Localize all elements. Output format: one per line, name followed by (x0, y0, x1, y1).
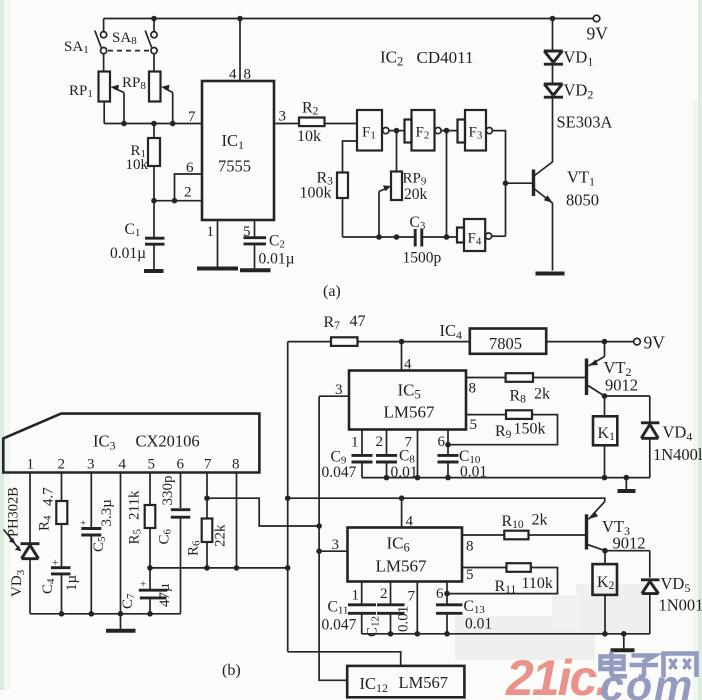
capacitor C5 on pin3 (90, 473, 92, 529)
svg-text:330p: 330p (160, 476, 176, 506)
wire IC4 to 9V (546, 341, 633, 343)
wire pin 3 out (274, 123, 299, 125)
wire feedback bus to C3 (343, 236, 415, 238)
node A at supply branch line (285, 495, 291, 501)
svg-text:2: 2 (376, 434, 384, 450)
wire F1 out to F2 (389, 130, 405, 132)
resistor R2 (299, 118, 325, 127)
node pin6/pin2 join (172, 198, 178, 204)
wire vertical A supply column (287, 342, 289, 652)
node F2-out drop on bus (444, 234, 450, 240)
svg-text:PH302B: PH302B (6, 487, 22, 537)
svg-text:+: + (140, 579, 146, 591)
terminal 9V top (593, 15, 600, 22)
wire dashed gang link SA1-SA8 (108, 50, 150, 52)
node C7 on ground bus (147, 611, 153, 617)
svg-text:4: 4 (119, 457, 127, 473)
wire SA1 to RP1 (103, 54, 105, 72)
wire IC6 pin3 (319, 550, 347, 552)
node C5 on ground bus (89, 611, 95, 617)
node F2 out (444, 128, 450, 134)
svg-text:7: 7 (204, 457, 212, 473)
resistor R10 (504, 531, 528, 540)
node IC6 pin4 tap (399, 495, 405, 501)
svg-text:5: 5 (148, 457, 156, 473)
svg-text:10k: 10k (126, 157, 149, 173)
wire R2 to F1 (325, 123, 358, 125)
capacitor C10 on IC5 pin6 (447, 430, 449, 456)
char dian (609, 652, 614, 671)
svg-text:CX20106: CX20106 (136, 432, 200, 451)
gray jpeg patches (455, 616, 595, 660)
capacitor C12 on IC6 pin2 (390, 582, 392, 605)
capacitor C13 on IC6 pin6 (446, 582, 448, 605)
switch SA8 (151, 32, 157, 38)
svg-text:211k: 211k (127, 490, 143, 520)
ground bar IC3 (106, 629, 136, 633)
node F3/F4 out join (503, 180, 509, 186)
IC IC6 LM567 box (348, 528, 463, 582)
svg-text:(b): (b) (222, 662, 241, 679)
node RP8 leg junction (151, 121, 157, 127)
wire IC5 pin7 (417, 430, 419, 478)
IC IC12 LM567 box (347, 666, 464, 697)
svg-text:1: 1 (352, 588, 360, 604)
capacitor C9 on IC5 pin1 (361, 430, 363, 456)
wire IC6 pin7 (416, 582, 418, 634)
node R9 loop to pin6 (445, 442, 451, 448)
gate F1 (357, 110, 382, 151)
wire F2 out to F3 (441, 130, 457, 132)
svg-text:0.047: 0.047 (322, 464, 357, 481)
svg-text:5: 5 (466, 567, 474, 583)
wire SA8 to RP8 (153, 54, 155, 72)
svg-text:2: 2 (380, 586, 388, 602)
svg-text:1: 1 (27, 457, 35, 473)
potentiometer RP9 (396, 131, 398, 172)
wire base drive to VT1 (506, 182, 533, 184)
transistor VT2 9012 (585, 359, 588, 396)
potentiometer RP8 (149, 72, 161, 102)
node pin3 column at IC6 (316, 548, 322, 554)
resistor R8 (506, 373, 533, 382)
diode VD5 (649, 551, 651, 578)
wire IC6 pin5 to R11 (462, 567, 507, 569)
svg-text:1µ: 1µ (64, 575, 80, 592)
green scan strip left (0, 0, 4, 690)
transistor VT1 8050 (532, 170, 535, 197)
resistor R11 (507, 563, 531, 572)
node rail to VD1 (550, 16, 556, 22)
node K1 bottom on bus (602, 475, 608, 481)
svg-text:LM567: LM567 (376, 557, 428, 576)
wire VD1 to VD2 (552, 64, 554, 84)
wire SA8 drop (153, 19, 155, 32)
ground under C2 (240, 268, 271, 272)
svg-text:3: 3 (332, 537, 340, 553)
svg-text:7805: 7805 (489, 334, 522, 353)
wire IC3 output to IC5/IC6 pin3 column (207, 498, 319, 526)
svg-text:1: 1 (207, 224, 215, 240)
svg-text:20k: 20k (404, 186, 428, 203)
svg-text:1: 1 (351, 435, 359, 451)
node output on pin3 column (316, 523, 322, 529)
wire A bottom to IC12 (288, 652, 401, 666)
resistor R7 (288, 341, 331, 343)
ground under IC5 bus (625, 478, 627, 490)
svg-text:6: 6 (436, 586, 444, 602)
terminal 9V bottom (634, 338, 641, 345)
wire supply branch line to VT3 emitter (288, 498, 605, 501)
svg-text:7: 7 (408, 589, 416, 605)
wire IC5 pin5 to R9 (466, 414, 506, 416)
svg-text:21ic.: 21ic. (505, 650, 607, 700)
wire IC6 bottom bus (362, 633, 650, 635)
svg-text:150k: 150k (514, 421, 546, 438)
wire F4 out (492, 235, 506, 237)
node pin2 junction (151, 198, 157, 204)
wire pin 6 loop (175, 174, 203, 201)
wire pin 7 bus into IC1 (104, 123, 202, 125)
capacitor C2 on pin 5 (254, 220, 256, 238)
node RP8 wiper junction (170, 121, 176, 127)
node RP9 wiper on bus (376, 234, 382, 240)
resistor R5 on pin5 (149, 473, 151, 506)
wire pin4 to ground (120, 473, 122, 630)
node R6 on V+ line (204, 565, 210, 571)
node pin4 on ground bus (118, 611, 124, 617)
svg-text:9V: 9V (644, 333, 666, 353)
node ground tap on bus (624, 475, 630, 481)
ground under VT1 (536, 272, 565, 276)
wire IC6 pin4 (401, 498, 403, 527)
wire IC6 pin8 to R10 (462, 534, 504, 536)
resistor R1 (153, 124, 155, 139)
ground under C1 (144, 269, 164, 273)
wire pins 4/8 from rail (237, 16, 243, 22)
svg-text:SE303A: SE303A (557, 113, 613, 132)
IC op U IC1 7555 box (202, 81, 274, 220)
svg-text:1N400l: 1N400l (653, 445, 702, 464)
switch SA1 (101, 32, 107, 38)
svg-text:110k: 110k (522, 575, 553, 592)
node RP9 leg on bus (394, 234, 400, 240)
svg-text:5: 5 (470, 417, 478, 433)
node RP1 wiper junction (121, 121, 127, 127)
svg-text:7: 7 (188, 109, 196, 125)
svg-text:1N001: 1N001 (659, 596, 702, 615)
node VT2 emitter tap (602, 339, 608, 345)
transistor VT3 9012 (585, 514, 588, 549)
wire IC1 pin 1 to ground (217, 220, 219, 267)
node V+ to vertical A (285, 565, 291, 571)
svg-text:6: 6 (438, 434, 446, 450)
watermark dianziwang glyphs (601, 652, 697, 678)
svg-text:6: 6 (186, 160, 194, 176)
wire F3 out to base node (493, 131, 506, 237)
wire pin 2 (154, 200, 202, 202)
svg-text:10k: 10k (297, 128, 321, 145)
wire rail to VD1 (552, 19, 554, 52)
wire IC5 pin8 to R8 (466, 377, 506, 379)
gate F2 (405, 120, 412, 143)
IC IC5 LM567 box (349, 371, 466, 430)
svg-text:3: 3 (335, 382, 343, 398)
svg-text:(a): (a) (323, 283, 341, 300)
gate F4 (457, 228, 464, 243)
diode VD1 (544, 50, 563, 53)
resistor R4 on pin2 (61, 473, 63, 502)
wire RP1 bottom to pin7 bus (103, 102, 105, 124)
wire IC5 pin3 (319, 395, 349, 397)
diode VD2 (544, 83, 563, 86)
wire vertical B pin3 column (319, 396, 347, 680)
node C4 on ground bus (59, 611, 65, 617)
light arrows into VD3 (4, 530, 13, 541)
svg-text:2: 2 (58, 457, 66, 473)
wire collector to K2 and VD5 (605, 550, 650, 552)
svg-text:3.3µ: 3.3µ (99, 499, 115, 527)
potentiometer RP1 (99, 72, 111, 102)
wire IC5 decoupling bus (362, 477, 650, 479)
node VT2 collector (602, 393, 608, 399)
svg-text:47: 47 (350, 313, 366, 330)
svg-text:22k: 22k (213, 524, 229, 547)
svg-text:8: 8 (232, 457, 240, 473)
svg-text:9012: 9012 (613, 534, 646, 553)
svg-text:7: 7 (405, 435, 413, 451)
node ground tap on bus (621, 631, 627, 637)
svg-text:2k: 2k (534, 386, 550, 403)
svg-text:4: 4 (229, 67, 237, 83)
wire SA1 drop from rail (103, 19, 105, 32)
capacitor C3 (414, 229, 417, 247)
capacitor C8 on IC5 pin2 (386, 430, 388, 456)
svg-text:4.7: 4.7 (41, 487, 57, 506)
node F1 out (394, 128, 400, 134)
svg-text:9V: 9V (587, 24, 609, 44)
svg-text:0.01: 0.01 (396, 606, 412, 632)
resistor R9 (506, 410, 532, 419)
wire C3 to F4 (423, 236, 457, 238)
svg-text:8: 8 (244, 67, 252, 83)
svg-text:0.01: 0.01 (465, 616, 492, 633)
svg-text:100k: 100k (300, 185, 332, 202)
node VT3 collector (602, 548, 608, 554)
node pin8 on V+ line (234, 565, 240, 571)
svg-text:3: 3 (279, 109, 287, 125)
svg-text:8: 8 (466, 539, 474, 555)
char zi (632, 656, 655, 663)
node rail-SA8 (151, 16, 157, 22)
node IC5 pin4 tap (399, 339, 405, 345)
svg-text:LM567: LM567 (384, 403, 436, 422)
node R11 loop to pin6 (444, 591, 450, 597)
svg-text:com: com (600, 662, 694, 700)
ground under pin 1 (197, 267, 238, 271)
svg-text:47µ: 47µ (157, 583, 173, 607)
resistor R3 (337, 173, 348, 199)
node R5/C7 on V+ line (147, 565, 153, 571)
svg-text:2k: 2k (532, 512, 548, 529)
svg-text:9012: 9012 (605, 376, 638, 395)
relay K1 (593, 416, 617, 445)
capacitor C1 (153, 201, 155, 238)
svg-text:8: 8 (469, 381, 477, 397)
svg-text:LM567: LM567 (399, 673, 449, 692)
char wang (664, 654, 697, 678)
svg-text:0.047: 0.047 (322, 617, 357, 634)
green scan strip right (698, 0, 702, 700)
wire F2 out down to bus (446, 131, 448, 237)
svg-text:1500p: 1500p (403, 250, 442, 267)
ground under IC6 bus (623, 634, 625, 649)
wire F1 lower input to R3 (343, 141, 358, 173)
IC IC4 7805 box (470, 329, 546, 354)
svg-text:0.01µ: 0.01µ (110, 245, 146, 262)
photodiode VD3 (21, 542, 40, 545)
ground bus IC3 (30, 613, 181, 615)
svg-text:3: 3 (87, 457, 95, 473)
wire top supply rail (104, 18, 593, 20)
svg-text:7555: 7555 (218, 157, 251, 176)
capacitor C11 on IC6 pin1 (361, 582, 363, 605)
wire V+ line IC3 (150, 567, 288, 569)
wire IC5 pin4 (401, 342, 403, 371)
svg-text:0.01µ: 0.01µ (259, 251, 295, 268)
svg-text:2: 2 (184, 185, 192, 201)
relay K2 (593, 564, 618, 595)
gate F3 (458, 120, 466, 143)
node K2 bottom on bus (602, 631, 608, 637)
svg-text:CD4011: CD4011 (417, 48, 474, 67)
resistor R6 on pin7 (206, 473, 208, 519)
wire collector to K1 and VD4 (605, 395, 650, 397)
diode VD4 (649, 396, 651, 423)
svg-text:6: 6 (177, 457, 185, 473)
IC IC3 CX20106 box (3, 414, 259, 473)
wire pin8 to V+ line (236, 473, 238, 568)
capacitor C6 on pin6 (180, 473, 182, 509)
svg-text:8050: 8050 (566, 191, 599, 210)
wire pin1 to VD3 (29, 473, 31, 544)
